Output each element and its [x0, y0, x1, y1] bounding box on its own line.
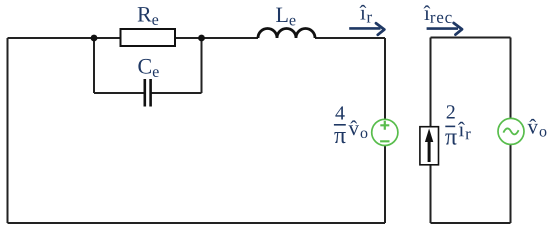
current source I1 (2/pi i_r) [420, 127, 439, 165]
label 2/pi [445, 105, 456, 144]
wire: right loop bottom [431, 222, 511, 224]
label i_r (top) [360, 5, 372, 23]
label v_o (right source) [528, 119, 547, 137]
wire: bottom of left loop [8, 222, 386, 224]
wire: inductor to top-right corner of left loop [315, 37, 385, 39]
wire: right loop right vertical (through source V2) [510, 38, 512, 224]
wire: top segment from left corner to resistor [8, 37, 121, 39]
wire: right loop left vertical (through source I1) [430, 38, 432, 224]
voltage source V2 (v_o sine) [498, 118, 524, 144]
label i_r (current source) [458, 122, 471, 140]
wire: left vertical of left loop [7, 38, 9, 223]
resistor Re [121, 29, 176, 46]
label i_rec (top) [424, 5, 452, 23]
label 4/pi [334, 106, 346, 143]
wire: capacitor branch left horizontal [94, 92, 144, 94]
inductor Le [258, 29, 315, 39]
wire: right loop top [431, 37, 511, 39]
capacitor Ce plates [145, 79, 151, 107]
current arrow i_r (blue) [349, 23, 384, 35]
current arrow i_rec (blue) [427, 23, 462, 35]
wire: capacitor branch right horizontal [151, 92, 201, 94]
label Re [138, 7, 159, 25]
wire: capacitor branch left vertical [93, 38, 95, 93]
wire: capacitor branch right vertical [201, 38, 203, 93]
label Ce [138, 59, 158, 77]
label Le [276, 8, 295, 26]
node B: junction dot right [198, 35, 205, 42]
label v_o (left source) [349, 120, 368, 138]
wire: between resistor and inductor [175, 37, 258, 39]
node A: junction dot left [91, 35, 98, 42]
voltage source V1 (4/pi v_o) [372, 119, 398, 145]
wire: right vertical of left loop (through source V1) [384, 38, 386, 223]
